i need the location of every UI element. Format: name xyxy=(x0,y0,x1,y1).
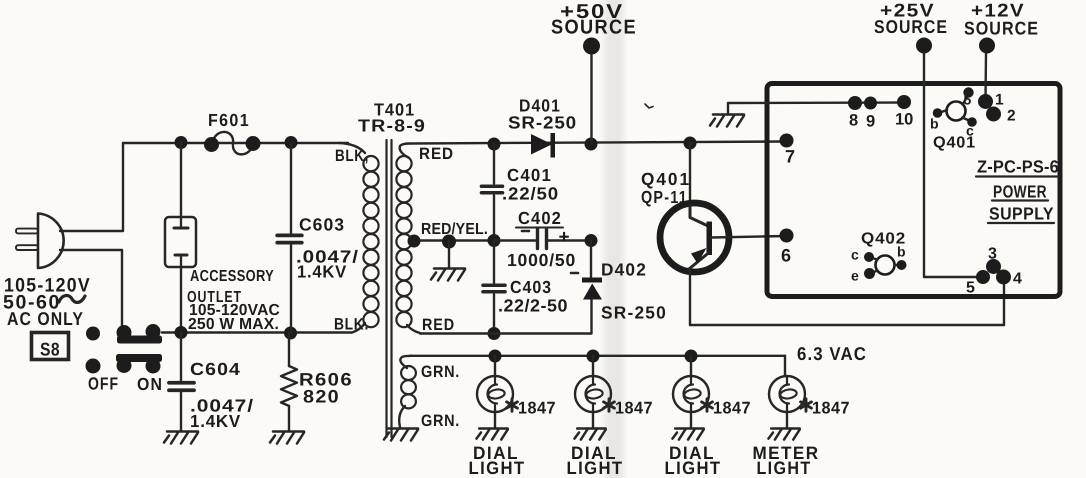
transistor Q401 xyxy=(660,203,729,272)
wire outlet bottom lead xyxy=(180,267,182,332)
wire lamp 4 bottom lead xyxy=(786,412,788,428)
wire plug lower lead to switch xyxy=(60,250,122,327)
svg-text:LIGHT: LIGHT xyxy=(469,458,526,478)
capacitor C401 xyxy=(482,186,503,193)
label #1847 lamp1 xyxy=(507,399,518,411)
svg-text:SR-250: SR-250 xyxy=(601,303,667,323)
wire lamp 3 bottom lead xyxy=(690,412,692,428)
wire primary bottom lead xyxy=(352,323,365,333)
label #1847 lamp3 xyxy=(702,399,713,411)
terminal +12V source xyxy=(979,38,995,54)
ground at board top xyxy=(727,104,729,114)
circuit board outline xyxy=(767,84,1060,297)
wire mains rail y143 xyxy=(123,142,348,144)
svg-text:BLK,: BLK, xyxy=(335,147,369,165)
wire +25V lead xyxy=(924,53,977,277)
wire emitter return y325 xyxy=(690,324,1004,326)
wire switch to transformer y332.5 xyxy=(162,331,352,333)
switch S8 OFF contact lower xyxy=(86,359,101,374)
wire C403 lower lead xyxy=(493,295,495,334)
svg-text:Z-PC-PS-6: Z-PC-PS-6 xyxy=(977,157,1059,177)
node lamp 1 junction xyxy=(489,350,502,363)
svg-text:RED/YEL.: RED/YEL. xyxy=(421,221,488,238)
svg-text:ON: ON xyxy=(137,374,163,394)
svg-text:LIGHT: LIGHT xyxy=(567,458,624,478)
wire C603 lower lead xyxy=(290,245,292,333)
svg-text:1000/50: 1000/50 xyxy=(507,250,576,270)
svg-text:S8: S8 xyxy=(40,339,60,360)
diode D401 xyxy=(531,134,552,155)
node +50V rail junction xyxy=(585,138,598,151)
svg-text:Q401: Q401 xyxy=(933,135,976,152)
wire lamp 3 top lead xyxy=(690,356,692,376)
node board pin 4 xyxy=(996,270,1011,285)
wire Q401 collector lead xyxy=(689,143,691,206)
capacitor C604 xyxy=(169,383,194,391)
wire lamp 1 bottom lead xyxy=(494,412,496,428)
svg-text:TR-8-9: TR-8-9 xyxy=(358,116,426,136)
wire secondary rail y143.5 xyxy=(410,142,786,144)
wire lamp 2 bottom lead xyxy=(592,412,594,428)
svg-text:1.4KV: 1.4KV xyxy=(297,262,347,282)
svg-text:POWER: POWER xyxy=(993,182,1047,202)
wire C604 lower lead xyxy=(180,392,182,431)
node board pin 1 xyxy=(978,94,993,109)
wire tap ground stub xyxy=(448,242,450,269)
svg-text:+: + xyxy=(559,227,570,248)
svg-text:4: 4 xyxy=(1013,271,1022,288)
ground under GRN winding xyxy=(384,429,418,441)
ground at center tap xyxy=(431,269,465,281)
svg-text:1847: 1847 xyxy=(518,399,556,418)
node C401 top xyxy=(488,138,501,151)
wire C603 upper lead xyxy=(290,143,292,234)
label D402 minus xyxy=(571,272,578,275)
transformer primary winding xyxy=(363,156,378,171)
ground under lamp 2 xyxy=(574,429,605,440)
svg-text:1847: 1847 xyxy=(713,399,751,418)
wire D402 bottom lead xyxy=(590,300,592,334)
node tap ground junction xyxy=(442,235,456,249)
transformer core xyxy=(385,140,387,437)
terminal +50V source xyxy=(583,38,600,55)
node C402 right junction xyxy=(585,234,598,247)
resistor R606 xyxy=(281,366,297,406)
transistor Q402 on board xyxy=(876,256,895,275)
transistor socket Q401 on board xyxy=(947,102,966,121)
svg-text:250 W MAX.: 250 W MAX. xyxy=(188,316,279,333)
node lamp 3 junction xyxy=(685,350,698,363)
node board pin 7 xyxy=(780,134,794,148)
node center tap xyxy=(408,235,421,248)
wire secondary bottom lead xyxy=(407,325,420,333)
svg-text:C403: C403 xyxy=(510,277,552,297)
diode D402 xyxy=(582,278,602,283)
wire outlet top lead xyxy=(180,142,182,217)
wire secondary top lead to rail xyxy=(400,144,410,159)
wire C402 left lead xyxy=(494,239,536,241)
svg-text:c: c xyxy=(851,247,859,263)
wire +50V source lead xyxy=(590,54,592,144)
svg-text:b: b xyxy=(930,116,939,132)
node board pin 10 xyxy=(897,95,911,109)
svg-text:1: 1 xyxy=(995,92,1004,109)
wire R606 upper lead xyxy=(288,333,290,366)
svg-text:SOURCE: SOURCE xyxy=(964,18,1039,39)
ground under lamp 4 xyxy=(768,429,799,440)
node Q401 collector junction xyxy=(684,137,697,150)
wire ground to pins 8 9 10 xyxy=(728,101,904,104)
capacitor C603 xyxy=(277,235,302,242)
AC plug P1 xyxy=(16,214,64,269)
node board pin 5 xyxy=(976,270,990,284)
svg-text:SOURCE: SOURCE xyxy=(874,16,948,37)
wire center tap y240 xyxy=(412,239,494,241)
lamp PL403 dial light 3 xyxy=(673,376,709,412)
node C403 bottom junction xyxy=(488,327,501,340)
wire C402 right lead xyxy=(548,239,591,241)
svg-text:9: 9 xyxy=(866,113,875,131)
wire Q401 emitter down xyxy=(689,270,691,325)
wire RED bottom y333 xyxy=(420,332,592,334)
svg-text:1847: 1847 xyxy=(615,399,653,418)
ground under R606 xyxy=(270,432,304,444)
wire C401 upper lead xyxy=(493,144,495,184)
svg-text:GRN.: GRN. xyxy=(421,412,460,430)
svg-text:1.4KV: 1.4KV xyxy=(190,411,241,431)
label #1847 lamp4 xyxy=(801,399,812,411)
svg-text:C603: C603 xyxy=(299,215,345,235)
ground under lamp 3 xyxy=(672,429,703,440)
label C402 minus xyxy=(522,230,529,233)
svg-text:F601: F601 xyxy=(208,110,250,130)
svg-text:5: 5 xyxy=(966,280,975,297)
switch S8 designator box xyxy=(32,333,69,360)
svg-text:.22/2-50: .22/2-50 xyxy=(498,296,568,316)
capacitor C402 xyxy=(536,229,539,249)
terminal +25V source xyxy=(916,38,932,54)
wire lamp 1 top lead xyxy=(494,356,496,376)
svg-text:OFF: OFF xyxy=(88,374,119,394)
wire plug upper lead to rail xyxy=(60,143,123,231)
node lamp 2 junction xyxy=(587,350,600,363)
svg-text:SR-250: SR-250 xyxy=(508,113,577,133)
scan speck xyxy=(645,104,653,108)
wire C401 lower lead xyxy=(493,196,495,241)
svg-text:C401: C401 xyxy=(507,165,552,185)
svg-text:1847: 1847 xyxy=(812,399,850,418)
svg-text:RED: RED xyxy=(419,145,454,163)
node board pin 6 xyxy=(780,229,794,243)
node junction outlet top xyxy=(175,136,188,149)
transformer lamp winding GRN xyxy=(401,366,416,380)
node board pin 3 xyxy=(986,259,1001,274)
svg-text:8: 8 xyxy=(849,112,858,130)
label #1847 lamp2 xyxy=(604,399,615,411)
svg-text:6.3 VAC: 6.3 VAC xyxy=(797,343,867,364)
svg-text:D402: D402 xyxy=(601,260,647,280)
svg-text:SOURCE: SOURCE xyxy=(551,17,637,39)
node C402 left junction xyxy=(488,234,501,247)
switch S8 ON pole upper xyxy=(117,325,132,340)
wire GRN bottom lead xyxy=(399,406,405,427)
lamp PL401 dial light 1 xyxy=(477,376,513,412)
node board pin 9 xyxy=(864,97,877,110)
svg-text:C604: C604 xyxy=(190,359,241,379)
capacitor C403 xyxy=(483,285,505,292)
accessory outlet SO1 xyxy=(165,217,196,267)
svg-text:b: b xyxy=(897,244,906,260)
svg-text:10: 10 xyxy=(895,111,913,129)
switch S8 OFF contact upper xyxy=(86,327,100,341)
svg-text:GRN.: GRN. xyxy=(421,363,460,381)
svg-text:SUPPLY: SUPPLY xyxy=(989,204,1054,224)
node junction C603 top xyxy=(285,136,298,149)
wire lamp 2 top lead xyxy=(592,356,594,376)
wire C604 upper lead xyxy=(180,333,182,382)
wire D402 top lead xyxy=(590,241,592,279)
svg-text:3: 3 xyxy=(988,246,997,263)
node board pin 8 xyxy=(848,96,862,110)
wire GRN top lead to 6.3VAC xyxy=(400,356,412,368)
svg-text:820: 820 xyxy=(303,387,340,407)
node junction R606 top xyxy=(284,327,297,340)
wire pin4 riser xyxy=(1003,283,1005,325)
svg-text:LIGHT: LIGHT xyxy=(665,458,722,478)
svg-text:ACCESSORY: ACCESSORY xyxy=(190,268,274,285)
svg-text:5: 5 xyxy=(964,92,972,108)
wire primary top lead xyxy=(340,143,365,153)
switch S8 ON pole lower xyxy=(117,358,132,373)
svg-text:LIGHT: LIGHT xyxy=(757,458,812,478)
svg-text:RED: RED xyxy=(422,316,455,334)
wire 6.3VAC drop to meter lamp xyxy=(784,356,786,376)
lamp PL404 meter light xyxy=(769,376,805,412)
ground under lamp 1 xyxy=(476,429,507,440)
node junction C604 top xyxy=(175,326,188,339)
svg-text:BLK.: BLK. xyxy=(334,316,369,334)
wire Q401 base to pin6 xyxy=(711,236,786,238)
wire R606 lower lead xyxy=(288,406,290,431)
scan fold band xyxy=(600,0,628,478)
svg-text:e: e xyxy=(851,268,859,284)
svg-text:AC ONLY: AC ONLY xyxy=(7,308,84,329)
transformer secondary winding xyxy=(396,156,411,171)
svg-text:C402: C402 xyxy=(518,208,562,228)
lamp PL402 dial light 2 xyxy=(575,376,611,412)
svg-text:2: 2 xyxy=(1007,108,1016,125)
svg-text:6: 6 xyxy=(781,246,791,266)
wire +12V lead xyxy=(984,53,987,101)
fuse F601 xyxy=(212,132,254,154)
svg-text:Q401: Q401 xyxy=(641,169,691,189)
svg-text:.22/50: .22/50 xyxy=(502,184,559,204)
wire C403 upper lead xyxy=(493,241,495,284)
svg-text:7: 7 xyxy=(785,147,795,167)
wire 6.3VAC y356 xyxy=(410,355,785,357)
ground under C604 xyxy=(164,432,198,444)
node board pin 2 xyxy=(986,107,1001,122)
